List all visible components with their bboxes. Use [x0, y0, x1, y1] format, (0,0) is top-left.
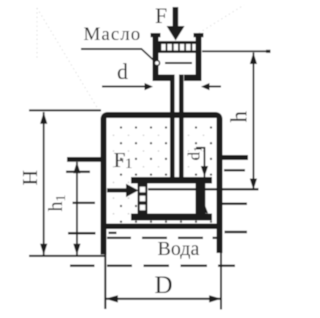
oil level line in inner cylinder (h reference line) [148, 188, 259, 190]
cylinder U1 left wall [153, 36, 159, 81]
dimension d: right line + arrow [209, 86, 221, 88]
dimension D: line [106, 298, 221, 300]
dimension h: top extension line [202, 50, 270, 52]
svg-text:H: H [18, 170, 42, 186]
wire: water dashed line inside tank [107, 237, 131, 239]
cylinder left wall cap [151, 33, 161, 37]
dimension h1: top arrow [73, 162, 80, 173]
TOPCYL [151, 7, 204, 178]
cylinder bottom (with rod gap) [153, 75, 171, 82]
INNER [107, 177, 259, 221]
piston (hatched) in upper cylinder [158, 41, 197, 53]
wire: left water-level bar protruding from wall [67, 157, 106, 162]
wire: right D extension line [220, 253, 222, 310]
oil level line inside cylinder [165, 62, 192, 64]
wire: dash row 1 right [224, 169, 245, 171]
dimension D: right arrow [209, 295, 221, 302]
dimension d1: down arrow at plate [201, 166, 208, 177]
wire: dash row 2 left [73, 202, 96, 204]
faint dots [113, 135, 115, 137]
cylinder right wall cap [194, 33, 204, 37]
dimension d1: top tick to label [196, 147, 205, 149]
white interior of inner cylinder [137, 181, 212, 215]
dimension H: vertical line [43, 112, 45, 255]
cylinder U1 right wall [196, 36, 202, 81]
svg-text:d: d [117, 59, 128, 84]
wire: dash row 2 right [222, 203, 247, 205]
inner cylinder top plate [131, 177, 212, 184]
force arrow F [173, 7, 179, 28]
wire: dash row 3 inner [109, 232, 117, 234]
dimension H: bottom arrow [40, 244, 47, 255]
rod (piston stem) going down [170, 75, 175, 178]
inner cylinder right end cap [196, 184, 205, 214]
dot texture (decorative) [120, 126, 122, 128]
wire: dash row 3 right [225, 231, 248, 233]
dimension H: top extension line [29, 109, 101, 111]
wire: left D extension line [104, 255, 106, 310]
faint scan artifact diagonals (decorative) [37, 5, 244, 114]
force arrow F1 [107, 188, 127, 192]
inner cylinder bottom plate [131, 214, 212, 221]
dimension h: bottom arrow [250, 179, 257, 190]
dimension h1: bottom arrow [73, 244, 80, 255]
DOTS [113, 126, 212, 222]
wire: bottom water dashed line [70, 265, 95, 267]
dimension h1: vertical line [76, 162, 78, 255]
TANK [66, 112, 248, 310]
bottom extension line for H and h1 [29, 255, 106, 257]
dimension d1: up arrow at bottom plate [201, 204, 208, 213]
svg-text:D: D [155, 272, 173, 299]
dimension d1: vertical line [204, 147, 206, 214]
wire: dash row 3 left [68, 232, 96, 234]
svg-text:h: h [227, 111, 252, 123]
svg-text:Масло: Масло [84, 24, 142, 45]
dimension D: left arrow [105, 295, 118, 302]
inner piston P1 (hatched) [138, 184, 148, 214]
svg-text:F: F [155, 3, 167, 28]
dimension h: vertical line [253, 53, 255, 190]
wire: right water-level bar protruding from wall [219, 155, 248, 160]
DIMS [29, 50, 271, 303]
wire: dash row 1 left [66, 171, 90, 173]
svg-text:Вода: Вода [158, 238, 200, 260]
wire: water interface bar inside tank [104, 224, 218, 230]
dimension d: left line + arrow [102, 86, 146, 88]
dimension H: top arrow [40, 112, 47, 124]
tank shell (top + side walls, rounded top corners) [101, 112, 223, 255]
dimension h: top arrow [250, 53, 257, 65]
